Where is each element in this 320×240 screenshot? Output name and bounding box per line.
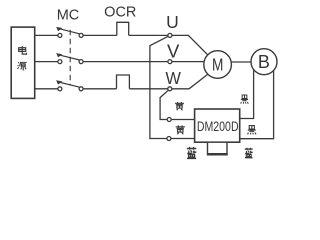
- svg-text:V: V: [167, 40, 180, 61]
- svg-text:MC: MC: [57, 8, 80, 24]
- svg-text:M: M: [212, 56, 223, 75]
- svg-text:U: U: [166, 12, 179, 32]
- svg-text:OCR: OCR: [104, 5, 136, 21]
- svg-text:B: B: [258, 52, 270, 72]
- svg-text:W: W: [166, 69, 181, 89]
- svg-text:DM200D: DM200D: [197, 119, 239, 135]
